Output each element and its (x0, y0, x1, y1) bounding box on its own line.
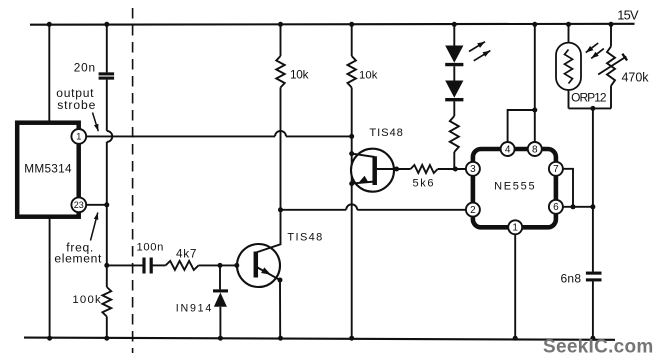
svg-text:7: 7 (553, 164, 559, 175)
svg-text:6n8: 6n8 (561, 272, 582, 286)
svg-text:TIS48: TIS48 (369, 127, 402, 139)
svg-text:element: element (54, 252, 102, 266)
svg-text:10k: 10k (290, 67, 309, 81)
svg-text:10k: 10k (359, 69, 378, 81)
svg-text:NE555: NE555 (494, 181, 534, 193)
svg-text:23: 23 (74, 200, 84, 210)
svg-text:strobe: strobe (57, 98, 95, 112)
svg-text:20n: 20n (74, 61, 95, 75)
svg-text:IN914: IN914 (176, 303, 212, 315)
svg-text:1: 1 (512, 223, 518, 234)
svg-text:5k6: 5k6 (413, 178, 434, 190)
svg-text:TIS48: TIS48 (287, 232, 322, 244)
svg-text:2: 2 (470, 205, 476, 216)
svg-text:15V: 15V (617, 7, 639, 22)
svg-text:SeekIC.com: SeekIC.com (543, 336, 653, 357)
svg-text:470k: 470k (622, 71, 650, 85)
svg-text:1: 1 (76, 132, 81, 143)
svg-text:4: 4 (505, 144, 511, 155)
svg-text:3: 3 (470, 164, 476, 175)
svg-text:6: 6 (553, 202, 559, 213)
svg-text:ORP12: ORP12 (571, 90, 607, 104)
svg-text:8: 8 (532, 144, 538, 155)
svg-text:4k7: 4k7 (176, 247, 196, 261)
svg-text:100k: 100k (72, 294, 101, 306)
svg-text:100n: 100n (137, 241, 164, 253)
svg-text:MM5314: MM5314 (24, 162, 72, 176)
